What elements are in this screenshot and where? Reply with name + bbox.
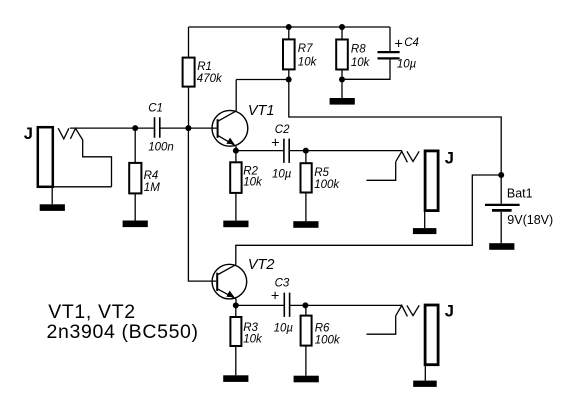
svg-text:10k: 10k bbox=[298, 56, 318, 68]
resistor R1 bbox=[183, 58, 195, 87]
svg-text:9V(18V): 9V(18V) bbox=[507, 213, 553, 227]
wire node L to R6 bbox=[305, 305, 307, 315]
output jack J3 ground stem bbox=[424, 365, 426, 381]
wire battery top bbox=[500, 175, 502, 204]
ground (battery) bbox=[489, 243, 514, 250]
svg-text:10k: 10k bbox=[243, 333, 263, 345]
input jack J1 sleeve wire bbox=[52, 186, 111, 188]
transistor VT1 emitter arrow bbox=[226, 138, 234, 145]
svg-text:100n: 100n bbox=[148, 141, 174, 153]
wire R7 to V+ node bbox=[288, 69, 290, 79]
ground (R3) bbox=[223, 375, 248, 382]
svg-text:10k: 10k bbox=[243, 176, 263, 188]
ground (R2) bbox=[223, 221, 248, 228]
capacitor C4 top plate bbox=[378, 51, 400, 53]
node H (VT1 emitter) bbox=[233, 148, 239, 154]
svg-text:C2: C2 bbox=[275, 124, 290, 136]
output jack J2 spring contact bbox=[396, 151, 408, 162]
input jack J1 tip contact V bbox=[58, 128, 69, 139]
svg-text:J: J bbox=[445, 302, 454, 320]
node L (R6 tap) bbox=[302, 302, 308, 308]
wire emitter to R3 bbox=[235, 305, 237, 317]
ground (R5) bbox=[293, 221, 318, 228]
svg-text:10k: 10k bbox=[351, 57, 371, 69]
transistor VT2 base bar bbox=[216, 273, 218, 291]
svg-text:+: + bbox=[394, 37, 402, 53]
svg-text:2n3904 (BC550): 2n3904 (BC550) bbox=[47, 321, 199, 343]
svg-text:C1: C1 bbox=[148, 103, 163, 115]
svg-text:Bat1: Bat1 bbox=[507, 187, 533, 201]
transistor VT1 collector stroke bbox=[218, 111, 236, 121]
node E (R7 bottom / V+) bbox=[286, 77, 292, 83]
wire rail to C4 bbox=[389, 27, 391, 51]
svg-text:100k: 100k bbox=[315, 334, 341, 346]
svg-text:R4: R4 bbox=[144, 170, 159, 182]
node D (R8 top) bbox=[339, 24, 345, 30]
wire emitter to C3 bbox=[236, 304, 284, 306]
ground (output jack J3) bbox=[413, 381, 437, 387]
wire C3 to output node bbox=[290, 304, 402, 306]
transistor VT2 emitter arrow bbox=[226, 291, 234, 298]
battery Bat1 positive plate bbox=[485, 204, 520, 206]
transistor VT1 emitter stroke bbox=[218, 136, 236, 146]
node F (R8 bottom) bbox=[339, 77, 345, 83]
wire input to C1 bbox=[70, 127, 154, 129]
svg-text:VT2: VT2 bbox=[248, 257, 275, 273]
svg-text:+: + bbox=[271, 288, 279, 304]
svg-text:J: J bbox=[445, 149, 454, 167]
output jack J2 switch stub bbox=[367, 162, 396, 181]
wire battery to ground bbox=[500, 212, 502, 243]
capacitor C4 bottom plate bbox=[378, 57, 400, 59]
transistor VT1 body bbox=[212, 110, 248, 146]
transistor VT2 body bbox=[212, 264, 247, 299]
wire VT1 collector to node E bbox=[236, 79, 289, 81]
wire C4 to node F bbox=[342, 60, 390, 80]
capacitor C3 plates bbox=[284, 293, 289, 317]
wire top rail bbox=[189, 26, 391, 28]
wire node I to R5 bbox=[305, 151, 307, 164]
svg-text:VT1: VT1 bbox=[248, 103, 275, 119]
transistor VT2 collector stroke bbox=[218, 265, 236, 275]
wire node A to R4 bbox=[134, 128, 136, 163]
node K (VT2 emitter) bbox=[233, 302, 239, 308]
ground (input jack) bbox=[40, 204, 65, 211]
wire R4 to ground bbox=[134, 193, 136, 220]
resistor R6 bbox=[301, 316, 312, 346]
output jack J3 body bbox=[425, 305, 438, 365]
output jack J3 switch stub bbox=[367, 316, 396, 334]
svg-text:10µ: 10µ bbox=[274, 323, 294, 335]
svg-text:10µ: 10µ bbox=[397, 59, 417, 71]
node B (C1/R1/base) bbox=[185, 125, 191, 131]
wire VT1 collector up bbox=[235, 80, 237, 111]
svg-text:R8: R8 bbox=[351, 43, 366, 55]
svg-text:C4: C4 bbox=[404, 37, 419, 49]
capacitor C2 plates bbox=[284, 139, 289, 163]
wire R8 to ground node bbox=[341, 70, 343, 80]
wire node B up to R1 bbox=[188, 87, 190, 129]
svg-text:+: + bbox=[271, 135, 279, 151]
wire R1 to top rail bbox=[188, 27, 190, 58]
capacitor C1 plates bbox=[155, 117, 160, 138]
resistor R7 bbox=[283, 39, 295, 69]
transistor VT2 emitter stroke bbox=[218, 289, 236, 299]
node C (R7 top) bbox=[286, 24, 292, 30]
svg-text:470k: 470k bbox=[197, 73, 223, 85]
node G (battery +) bbox=[498, 172, 504, 178]
svg-text:R3: R3 bbox=[243, 322, 258, 334]
svg-text:VT1, VT2: VT1, VT2 bbox=[48, 301, 136, 323]
ground (R4) bbox=[123, 221, 148, 228]
wire emitter to C2 bbox=[236, 150, 284, 152]
output jack J3 tip contact V bbox=[407, 305, 419, 315]
wire V+ to VT2 collector bbox=[236, 175, 501, 265]
wire C2 to output node bbox=[290, 150, 402, 152]
svg-text:100k: 100k bbox=[314, 179, 340, 191]
wire rail to R7 bbox=[288, 27, 290, 39]
resistor R8 bbox=[336, 40, 348, 70]
ground (R8) bbox=[330, 98, 355, 105]
resistor R3 bbox=[230, 317, 241, 346]
svg-text:1M: 1M bbox=[144, 182, 160, 194]
battery Bat1 negative plate bbox=[492, 209, 512, 212]
wire R5 to ground bbox=[305, 193, 307, 222]
input jack J1 spring contact bbox=[70, 128, 111, 186]
output jack J3 spring contact bbox=[396, 305, 408, 316]
node I (R5 tap) bbox=[303, 148, 309, 154]
svg-text:R5: R5 bbox=[314, 167, 329, 179]
node A (R4 tap) bbox=[132, 125, 138, 131]
wire R2 to ground bbox=[235, 193, 237, 221]
resistor R2 bbox=[230, 162, 241, 193]
ground (output jack J2) bbox=[413, 228, 437, 234]
wire R6 to ground bbox=[305, 346, 307, 376]
svg-text:J: J bbox=[24, 125, 33, 143]
output jack J2 tip contact V bbox=[407, 151, 419, 161]
svg-text:R6: R6 bbox=[315, 323, 330, 335]
wire rail to R8 bbox=[341, 27, 343, 40]
wire node B to VT1 base bbox=[189, 127, 217, 129]
wire C1 to base node bbox=[160, 127, 188, 129]
wire node B down to VT2 base bbox=[188, 128, 216, 281]
ground (R6) bbox=[294, 376, 319, 383]
wire V+ from node E to battery bbox=[289, 80, 501, 176]
resistor R5 bbox=[301, 163, 312, 192]
resistor R4 bbox=[129, 163, 141, 194]
wire VT2 emitter down bbox=[235, 299, 237, 306]
wire VT1 emitter down bbox=[235, 146, 237, 150]
svg-text:R7: R7 bbox=[298, 43, 313, 55]
input jack J1 ground stem bbox=[51, 187, 53, 205]
wire R8 ground stem bbox=[341, 80, 343, 99]
wire emitter to R2 bbox=[235, 151, 237, 163]
output jack J2 ground stem bbox=[424, 211, 426, 229]
svg-text:10µ: 10µ bbox=[272, 169, 292, 181]
svg-text:R1: R1 bbox=[197, 61, 212, 73]
output jack J2 body bbox=[425, 151, 438, 211]
input jack J1 body bbox=[38, 127, 53, 187]
transistor VT1 base bar bbox=[217, 119, 219, 138]
wire R3 to ground bbox=[235, 346, 237, 375]
